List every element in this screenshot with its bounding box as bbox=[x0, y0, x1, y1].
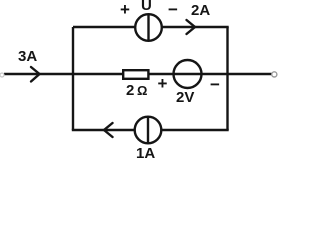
wire: bottom branch left segment bbox=[72, 129, 135, 131]
label 2 Ω (resistor value) bbox=[126, 82, 147, 99]
voltage source 2V (middle) bbox=[174, 60, 202, 88]
current source 1A (bottom) bbox=[135, 117, 162, 144]
arrow: 2A current direction (top wire, pointing right) bbox=[187, 20, 196, 34]
label U (top source voltage) bbox=[141, 0, 152, 14]
wire: top branch left segment bbox=[73, 26, 136, 28]
wire: top branch right segment bbox=[162, 26, 229, 28]
terminal: left node bbox=[0, 73, 4, 77]
current source U (top) bbox=[135, 14, 162, 41]
label 2V (source value) bbox=[176, 89, 194, 106]
wire: bottom branch right segment bbox=[162, 129, 229, 131]
wire: left vertical branch bbox=[72, 27, 74, 130]
label + (U polarity) bbox=[120, 0, 130, 20]
arrow: 3A current direction (middle wire, pointing right) bbox=[31, 67, 40, 82]
label 2A (top branch current) bbox=[191, 2, 210, 19]
wire: right vertical branch bbox=[226, 27, 228, 130]
label + (2V polarity) bbox=[158, 74, 168, 94]
arrow: 1A current direction (bottom wire, pointing left) bbox=[104, 123, 113, 137]
wire: middle branch left of resistor bbox=[4, 73, 122, 75]
resistor 2Ω bbox=[123, 70, 148, 79]
wire: middle branch right of resistor through source to right terminal bbox=[150, 73, 272, 75]
label - (2V polarity) bbox=[210, 75, 220, 95]
label 3A (left current) bbox=[18, 48, 37, 65]
label - (U polarity) bbox=[168, 0, 178, 20]
terminal: right node bbox=[272, 72, 277, 77]
label 1A (bottom source current) bbox=[136, 145, 155, 162]
